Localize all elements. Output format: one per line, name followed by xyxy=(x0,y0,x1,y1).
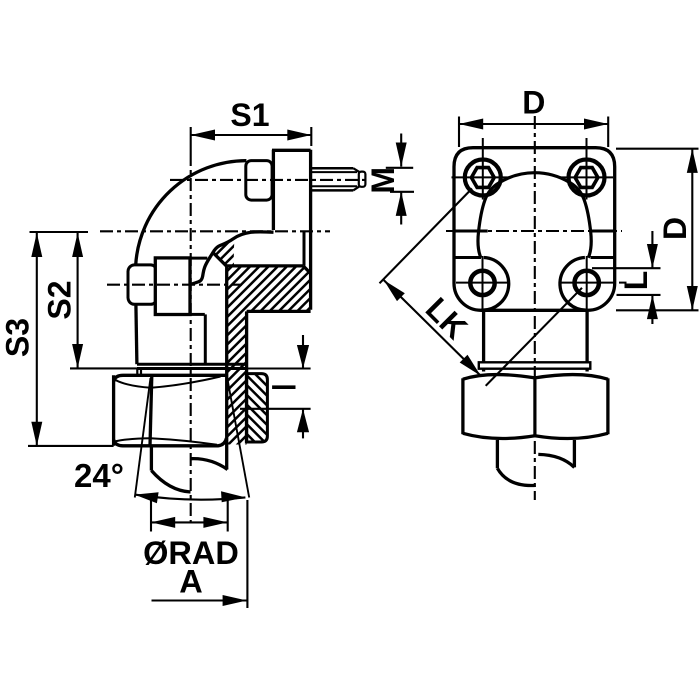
svg-text:S3: S3 xyxy=(0,318,36,357)
svg-text:D: D xyxy=(522,85,545,121)
svg-text:D: D xyxy=(657,217,693,240)
svg-text:A: A xyxy=(179,564,202,600)
svg-text:S2: S2 xyxy=(42,280,78,319)
svg-text:L: L xyxy=(618,271,654,291)
svg-text:S1: S1 xyxy=(230,97,269,133)
svg-text:24°: 24° xyxy=(74,457,124,494)
svg-text:M: M xyxy=(365,167,401,194)
